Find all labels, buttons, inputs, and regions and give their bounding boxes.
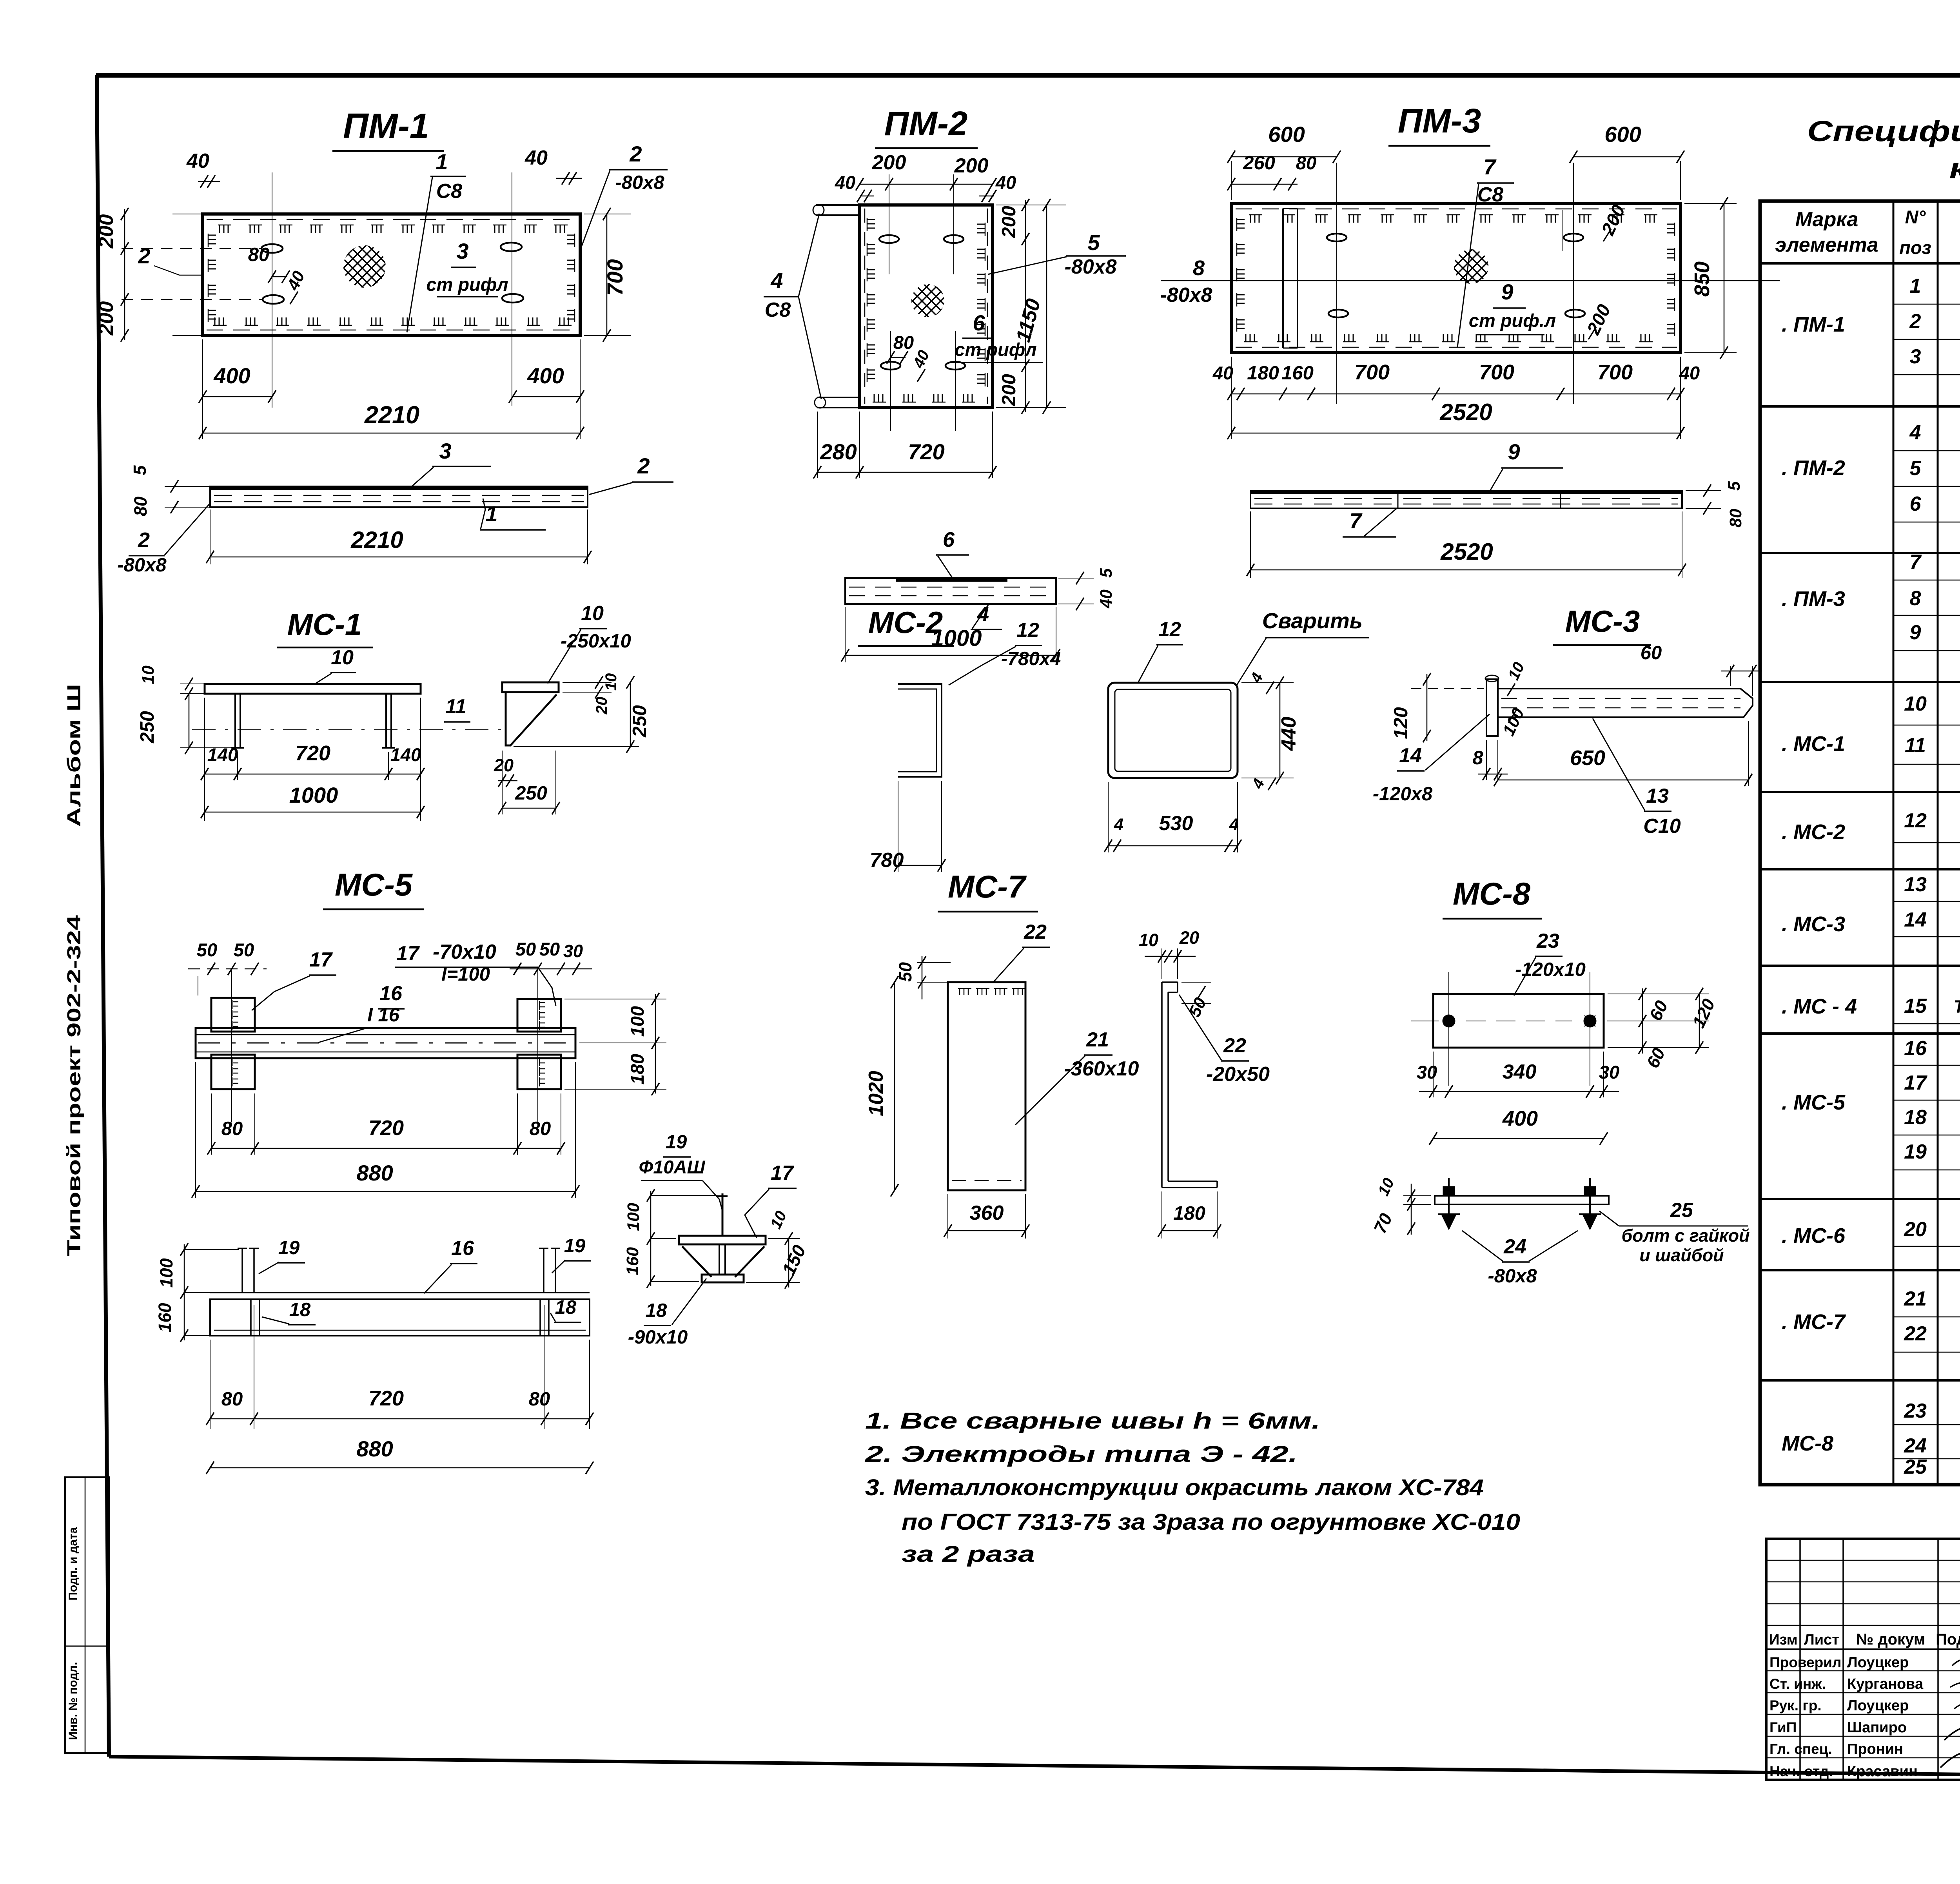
MC-8 bottom dims 30 340 30 [1417, 1052, 1619, 1098]
svg-text:болт с гайкой: болт с гайкой [1621, 1226, 1749, 1246]
PM-3 dims 260 80 [1227, 152, 1316, 190]
svg-text:50: 50 [197, 939, 217, 960]
svg-text:3. Металлоконструкции окрас: 3. Металлоконструкции окрасить лаком ХС-… [865, 1475, 1484, 1500]
left margin vertical project label [64, 684, 85, 1256]
PM-1 riffle hatch bottom edge [213, 317, 572, 325]
MC-3 dim 60 top-right [1641, 642, 1762, 696]
MC-5 top dims 50 50 left [188, 939, 267, 995]
svg-text:Лист: Лист [1804, 1632, 1839, 1648]
svg-text:. ПМ-1: . ПМ-1 [1782, 313, 1845, 336]
drawing MC-5 title [323, 867, 424, 909]
drawing MC-2 title [858, 605, 954, 646]
MC-7 angle top dims 10 20 [1139, 928, 1199, 979]
MC-2 box callout 12 [1138, 618, 1183, 684]
PM-1 dim 40 top-right [524, 147, 582, 185]
svg-text:160: 160 [1281, 363, 1314, 384]
PM-2 label 80 40 lower holes [887, 332, 933, 382]
svg-text:19: 19 [278, 1237, 300, 1258]
PM-1 side callout 2 [589, 453, 673, 495]
drawing MC-7 title [938, 869, 1038, 912]
PM-1 callout 3 st rifl [426, 239, 508, 297]
svg-text:80: 80 [248, 244, 270, 265]
svg-text:50: 50 [539, 939, 560, 959]
svg-text:. ПМ-3: . ПМ-3 [1782, 587, 1845, 611]
drawing MC-1 title [277, 607, 373, 647]
PM-1 callout 1 C8 [407, 149, 466, 332]
svg-text:3: 3 [456, 239, 468, 263]
svg-text:80: 80 [1296, 152, 1316, 173]
svg-text:720: 720 [368, 1387, 404, 1410]
svg-text:400: 400 [213, 363, 250, 388]
drawing PM-1 title [332, 107, 444, 151]
svg-text:МС-7: МС-7 [948, 869, 1027, 905]
svg-text:600: 600 [1604, 122, 1641, 147]
MC-5 dim 880 [192, 1062, 579, 1198]
MC-5 lower bottom dims 80 720 80 [206, 1305, 593, 1429]
svg-text:8: 8 [1472, 747, 1483, 769]
PM-3 hole centerlines [1337, 163, 1573, 404]
svg-text:Сварить: Сварить [1262, 608, 1363, 633]
svg-text:25: 25 [1670, 1199, 1693, 1222]
MC-7 plate 21 [948, 982, 1025, 1190]
svg-text:№ докум: № докум [1856, 1631, 1926, 1648]
PM-2 side dim 1000 [841, 607, 1060, 662]
svg-text:20: 20 [1904, 1218, 1927, 1241]
spec table vertical lines [1893, 201, 1960, 1485]
svg-text:10: 10 [1904, 693, 1927, 715]
svg-text:6: 6 [943, 528, 955, 551]
svg-text:40: 40 [1097, 589, 1116, 609]
svg-text:22: 22 [1223, 1034, 1246, 1057]
svg-text:МС-1: МС-1 [287, 607, 362, 642]
svg-text:19: 19 [564, 1235, 586, 1257]
svg-text:50: 50 [895, 962, 915, 982]
PM-2 side callout 4 [971, 602, 1002, 629]
svg-text:17: 17 [1904, 1072, 1927, 1094]
title block header row labels [1769, 1631, 1960, 1648]
svg-text:С8: С8 [765, 299, 791, 321]
svg-text:Подпись: Подпись [1936, 1631, 1960, 1648]
svg-text:9: 9 [1501, 279, 1513, 304]
svg-text:. ПМ-2: . ПМ-2 [1782, 456, 1845, 480]
MC-8 plate bolts [1443, 1015, 1596, 1027]
svg-text:20: 20 [494, 755, 514, 775]
PM-1 side dim 2210 [206, 510, 592, 564]
PM-3 crosshatch mark [1454, 249, 1488, 284]
MC-1 left dims 10 250 [137, 665, 231, 754]
svg-text:40: 40 [186, 150, 209, 172]
svg-text:700: 700 [1354, 361, 1390, 384]
PM-3 slotted holes [1327, 234, 1585, 317]
svg-text:780: 780 [870, 849, 904, 872]
svg-text:12: 12 [1904, 809, 1927, 832]
MC-7 dim 50 top [895, 956, 951, 999]
svg-text:19: 19 [666, 1131, 687, 1153]
PM-1 callout 2 -80x8 [581, 141, 668, 247]
svg-text:2. Электроды типа Э -: 2. Электроды типа Э - 42. [865, 1442, 1298, 1467]
svg-text:17: 17 [396, 942, 420, 965]
svg-text:5: 5 [1910, 457, 1922, 480]
MC-2 label Svarit [1237, 608, 1369, 685]
PM-3 label 9 st rifl [1469, 279, 1556, 335]
svg-text:5: 5 [1725, 481, 1744, 491]
svg-text:100: 100 [624, 1203, 643, 1231]
svg-text:40: 40 [995, 172, 1016, 193]
svg-text:25: 25 [1904, 1456, 1927, 1478]
MC-3 callout 13 C10 [1593, 718, 1681, 838]
PM-1 side dims 5 80 [130, 465, 210, 517]
svg-text:2520: 2520 [1439, 399, 1492, 425]
svg-text:850: 850 [1690, 261, 1714, 297]
MC-5 beam bar [196, 1028, 575, 1058]
svg-text:50: 50 [234, 939, 254, 960]
spec table heading [1807, 115, 1960, 185]
svg-text:200: 200 [872, 151, 906, 174]
svg-text:ст риф.л: ст риф.л [1469, 310, 1556, 331]
MC-5 label 16 I16 [318, 982, 405, 1043]
svg-text:элемента: элемента [1775, 234, 1878, 256]
svg-text:Труба Dу=300: Труба Dу=300 [1954, 997, 1960, 1017]
svg-text:I 16: I 16 [367, 1005, 399, 1026]
drawing MC-8 title [1443, 876, 1542, 919]
svg-text:7: 7 [1349, 508, 1363, 533]
svg-text:22: 22 [1024, 921, 1047, 943]
MC-5 clamp plates bottom [211, 1055, 561, 1089]
PM-2 side dims 5 40 [1058, 568, 1116, 610]
svg-text:1000: 1000 [289, 783, 338, 807]
svg-text:16: 16 [379, 982, 403, 1005]
svg-text:200: 200 [95, 214, 118, 249]
title block signature role labels [1769, 1654, 1841, 1779]
svg-text:200: 200 [998, 206, 1020, 238]
spec table block separator lines [1760, 406, 1960, 1380]
svg-text:14: 14 [1399, 744, 1422, 767]
svg-text:10: 10 [331, 646, 354, 669]
svg-text:22: 22 [1904, 1322, 1927, 1345]
MC-2 box right dims 4 440 4 [1241, 670, 1300, 792]
svg-text:ПМ-1: ПМ-1 [343, 107, 429, 146]
PM-3 dim 600 top-right [1570, 122, 1684, 200]
PM-2 riffle hatch right edge [977, 223, 985, 386]
svg-text:30: 30 [563, 941, 583, 961]
PM-1 dim 40 top-left [186, 150, 220, 188]
svg-text:700: 700 [603, 259, 627, 296]
svg-text:МС-8: МС-8 [1782, 1432, 1833, 1455]
MC-1 detail callout 10 -250x10 [548, 602, 631, 684]
PM-1 label 80 40 near holes [248, 244, 309, 304]
svg-text:14: 14 [1904, 908, 1927, 931]
svg-text:21: 21 [1086, 1028, 1109, 1051]
svg-text:24: 24 [1503, 1235, 1526, 1258]
svg-text:Спецификация металла: Спецификация металла на 1 штуку [1807, 115, 1960, 147]
svg-text:650: 650 [1570, 746, 1605, 770]
PM-1 dim 2210 [199, 401, 584, 439]
MC-1 shelf plate [205, 684, 421, 694]
svg-text:каждой марки: каждой марки [1949, 152, 1960, 185]
spec table header lines [1760, 233, 1960, 263]
svg-text:180: 180 [1247, 363, 1279, 384]
svg-text:6: 6 [1910, 493, 1922, 515]
svg-text:440: 440 [1278, 717, 1300, 751]
MC-7 callout 22 [993, 921, 1050, 983]
svg-text:880: 880 [356, 1436, 393, 1461]
title block signatures scribbles [1940, 1657, 1960, 1822]
svg-text:. МС - 4: . МС - 4 [1782, 995, 1857, 1018]
svg-text:Типовой проект 902-2-324: Типовой проект 902-2-324 [64, 915, 85, 1256]
MC-7 angle dim 50 [1181, 982, 1211, 1020]
svg-text:Гл. спец.: Гл. спец. [1769, 1741, 1832, 1757]
svg-text:7: 7 [1483, 154, 1497, 179]
MC-8 lower dims 10 70 [1370, 1175, 1431, 1237]
MC-5 section label 18 -90x10 [628, 1278, 706, 1348]
title block outline [1766, 1539, 1960, 1780]
svg-text:Красавин: Красавин [1847, 1763, 1918, 1780]
MC-5 section right dims 10 150 [746, 1208, 810, 1289]
svg-text:18: 18 [1904, 1106, 1927, 1129]
MC-5 clamp plates top [211, 998, 561, 1032]
svg-text:9: 9 [1508, 439, 1520, 464]
svg-text:18: 18 [555, 1297, 577, 1318]
svg-text:за 2 раза: за 2 раза [902, 1541, 1035, 1567]
svg-text:Ф10АШ: Ф10АШ [639, 1157, 706, 1177]
MC-1 axis line [192, 729, 504, 730]
svg-text:ПМ-3: ПМ-3 [1398, 102, 1481, 140]
PM-1 riffle hatch side edges [208, 234, 575, 322]
MC-1 brackets [231, 694, 395, 748]
PM-1 dim 700 right [584, 208, 631, 342]
svg-text:5: 5 [1087, 230, 1100, 255]
svg-text:10: 10 [1139, 930, 1158, 950]
svg-text:17: 17 [309, 948, 333, 971]
MC-3 end plate [1485, 675, 1499, 736]
MC-5 section detail [679, 1193, 766, 1282]
svg-text:200: 200 [954, 154, 989, 177]
MC-1 callout 10 [314, 646, 356, 685]
svg-text:Лоуцкер: Лоуцкер [1847, 1654, 1909, 1671]
svg-text:280: 280 [820, 439, 857, 464]
MC-2 channel end view [898, 684, 942, 777]
PM-3 side callout 9 [1490, 439, 1563, 491]
svg-text:7: 7 [1910, 551, 1922, 573]
svg-text:по ГОСТ 7313-75 за 3раза: по ГОСТ 7313-75 за 3раза по огрунтовке Х… [902, 1509, 1520, 1535]
svg-text:80: 80 [893, 332, 914, 353]
MC-3 dims 10 100 [1499, 660, 1528, 739]
MC-5 lower dim 880 [206, 1436, 593, 1474]
svg-text:4: 4 [770, 268, 783, 293]
svg-text:2520: 2520 [1440, 539, 1493, 565]
MC-1 bottom dims 140 720 140 [201, 698, 425, 821]
svg-text:20: 20 [1179, 928, 1199, 948]
PM-3 side dim 2520 [1247, 511, 1686, 578]
svg-text:Ст. инж.: Ст. инж. [1769, 1676, 1826, 1692]
svg-text:21: 21 [1904, 1287, 1927, 1310]
PM-3 riffle hatch side edges [1237, 218, 1675, 336]
svg-text:МС-2: МС-2 [868, 605, 943, 640]
svg-text:24: 24 [1904, 1434, 1927, 1457]
svg-text:Проверил: Проверил [1769, 1654, 1841, 1670]
MC-5 lower left dims 100 160 [155, 1243, 239, 1342]
svg-text:2: 2 [1909, 310, 1921, 333]
svg-text:. МС-3: . МС-3 [1782, 912, 1845, 936]
svg-text:4: 4 [1909, 421, 1921, 444]
PM-3 dim 2520 [1227, 399, 1684, 439]
svg-text:4: 4 [1114, 815, 1123, 834]
MC-8 label 24 -80x8 [1462, 1231, 1578, 1287]
MC-8 dim 400 [1429, 1107, 1608, 1145]
svg-text:1: 1 [485, 501, 497, 526]
svg-text:9: 9 [1910, 621, 1921, 644]
MC-8 callout 23 -120x10 [1514, 930, 1586, 995]
MC-3 callout 14 -120x8 [1373, 714, 1490, 805]
PM-2 riffle hatch left edge [867, 218, 875, 382]
spec table thin row lines [1893, 304, 1960, 1459]
svg-text:6: 6 [973, 310, 985, 335]
MC-2 welded box view [1108, 683, 1238, 778]
svg-text:40: 40 [524, 147, 548, 169]
title block horizontal lines left [1766, 1560, 1960, 1758]
MC-8 bolt centerlines [1449, 972, 1590, 1086]
PM-1 side callout 3 [411, 439, 491, 487]
svg-text:30: 30 [1599, 1062, 1619, 1083]
svg-text:. МС-6: . МС-6 [1782, 1224, 1846, 1248]
svg-text:80: 80 [131, 497, 151, 516]
spec table header text [1775, 207, 1960, 261]
svg-text:50: 50 [515, 939, 536, 959]
PM-2 plate outline [860, 205, 993, 408]
svg-text:5: 5 [1097, 568, 1116, 578]
svg-text:400: 400 [1502, 1107, 1538, 1130]
PM-1 hole centerlines [122, 172, 512, 406]
PM-1 side callout 1 [480, 499, 546, 530]
svg-text:Марка: Марка [1795, 208, 1858, 231]
MC-7 angle dim 180 [1158, 1191, 1221, 1238]
notes text [865, 1408, 1520, 1567]
svg-text:ст рифл: ст рифл [955, 339, 1036, 360]
svg-text:3: 3 [1910, 345, 1921, 368]
svg-text:250: 250 [515, 783, 547, 804]
svg-text:и шайбой: и шайбой [1639, 1245, 1724, 1265]
svg-text:-780х4: -780х4 [1001, 648, 1061, 669]
MC-5 section left dims 100 160 [623, 1189, 717, 1288]
PM-2 hole centerlines [889, 174, 955, 431]
MC-2 box bottom dims 4 530 4 [1104, 782, 1241, 852]
spec table outer border [1760, 201, 1960, 1485]
MC-1 dim 1000 [201, 783, 425, 818]
svg-text:4: 4 [1229, 815, 1239, 834]
svg-text:40: 40 [1212, 363, 1233, 383]
MC-5 lower view bar [210, 1293, 590, 1336]
svg-text:МС-8: МС-8 [1453, 876, 1530, 912]
svg-text:-360х10: -360х10 [1064, 1057, 1139, 1080]
svg-text:17: 17 [771, 1162, 794, 1184]
svg-text:Рук. гр.: Рук. гр. [1769, 1697, 1822, 1714]
MC-5 callout 17 -70x10 l=100 right [395, 941, 556, 1006]
PM-2 bottom flange bar [815, 397, 860, 408]
svg-text:160: 160 [155, 1303, 175, 1332]
PM-2 side callout 6 [936, 528, 969, 579]
svg-text:140: 140 [207, 744, 238, 765]
MC-7 dim 1020 [865, 976, 898, 1197]
MC-8 right dims 60 60 120 [1608, 988, 1719, 1071]
PM-2 bottom dims 280 720 [813, 412, 996, 479]
MC-8 plate 23 [1411, 994, 1682, 1048]
svg-text:720: 720 [368, 1116, 404, 1140]
PM-2 crosshatch mark [911, 284, 944, 317]
svg-text:700: 700 [1479, 361, 1514, 384]
svg-text:16: 16 [451, 1237, 474, 1260]
PM-2 slotted holes [879, 235, 965, 370]
MC-3 dim 8 [1472, 740, 1508, 780]
MC-5 top dims 50 50 30 right [510, 939, 592, 975]
svg-text:160: 160 [623, 1247, 642, 1275]
PM-3 side callout 7 [1343, 508, 1396, 537]
PM-2 top dims 200 200 40 40 [835, 151, 1016, 202]
svg-text:2: 2 [138, 243, 150, 268]
MC-2 callout 12 -780x4 [949, 619, 1061, 685]
svg-text:250: 250 [137, 711, 158, 743]
svg-text:1020: 1020 [865, 1071, 887, 1116]
svg-text:. МС-7: . МС-7 [1782, 1310, 1846, 1334]
svg-text:МС-3: МС-3 [1565, 604, 1640, 638]
svg-text:-80х8: -80х8 [615, 172, 664, 193]
svg-text:2: 2 [629, 141, 642, 166]
MC-5 section detail label 17 [745, 1162, 797, 1238]
svg-text:Подп. и дата: Подп. и дата [67, 1527, 80, 1601]
svg-text:720: 720 [295, 742, 330, 765]
svg-text:880: 880 [356, 1161, 393, 1185]
svg-text:-90х10: -90х10 [628, 1327, 688, 1348]
PM-1 riffle hatch top edge [218, 225, 568, 233]
drawing MC-3 title [1553, 604, 1651, 645]
svg-text:МС-5: МС-5 [335, 867, 413, 903]
svg-text:-80х8: -80х8 [117, 555, 167, 576]
MC-5 right dims 100 180 [564, 993, 666, 1095]
svg-text:360: 360 [970, 1202, 1004, 1224]
svg-text:2: 2 [637, 453, 650, 478]
svg-text:400: 400 [527, 363, 564, 388]
PM-1 dim 400 bottom-right [509, 339, 584, 439]
PM-3 dim 600 top-left [1227, 122, 1341, 200]
PM-2 callout 5 -80x8 [988, 230, 1126, 278]
svg-text:80: 80 [221, 1118, 243, 1139]
svg-text:40: 40 [835, 172, 855, 193]
svg-text:10: 10 [139, 665, 158, 684]
svg-text:-80х8: -80х8 [1065, 256, 1117, 278]
svg-text:5: 5 [130, 465, 150, 475]
svg-text:19: 19 [1904, 1141, 1927, 1163]
title block vertical lines [1800, 1539, 1960, 1780]
svg-text:поз: поз [1899, 237, 1931, 258]
svg-text:20: 20 [593, 697, 610, 715]
PM-2 side view bar [845, 578, 1056, 604]
PM-3 riffle hatch bottom edge [1244, 334, 1653, 342]
MC-8 lower view bolt right [1579, 1178, 1601, 1229]
svg-text:Нач. отд.: Нач. отд. [1769, 1763, 1833, 1779]
PM-3 riffle hatch top edge [1249, 215, 1657, 223]
svg-text:18: 18 [289, 1299, 311, 1320]
PM-3 callout 7 C8 [1457, 154, 1514, 347]
PM-1 side callout 2 -80x8 [117, 503, 210, 576]
MC-1 detail right dims [514, 673, 650, 753]
svg-text:15: 15 [1904, 995, 1927, 1017]
MC-5 lower label 16 [424, 1237, 477, 1293]
svg-text:3: 3 [439, 439, 451, 463]
MC-5 lower view end plates [251, 1299, 549, 1336]
svg-text:Альбом Ш: Альбом Ш [64, 684, 85, 827]
svg-text:13: 13 [1646, 785, 1669, 807]
PM-3 side view bar [1250, 491, 1682, 508]
svg-text:2210: 2210 [364, 401, 419, 429]
